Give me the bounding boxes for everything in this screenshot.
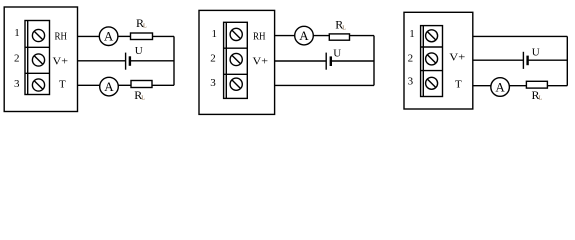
wire V+ row from box edge to battery [473, 59, 524, 61]
svg-text:1: 1 [14, 27, 20, 39]
ammeter A2 [100, 77, 119, 96]
svg-text:3: 3 [210, 77, 216, 89]
resistor R3 body [329, 34, 349, 40]
screw terminal pin 3 [230, 78, 242, 90]
wire ammeter A4 to resistor R4 [509, 85, 526, 87]
svg-text:RH: RH [253, 31, 266, 43]
svg-text:A: A [104, 79, 114, 94]
wire resistor R2 to right bus [152, 84, 174, 86]
resistor R4 body [526, 81, 547, 88]
ammeter A1 [99, 27, 118, 46]
svg-text:U: U [135, 45, 143, 57]
wire V+ row from box edge to battery [275, 60, 327, 62]
terminal block J3 [421, 26, 443, 97]
terminal block inner left line [422, 26, 424, 97]
sensor outline box (diagram 2) [199, 10, 275, 114]
svg-text:RH: RH [55, 31, 68, 43]
sensor outline box (diagram 3) [404, 12, 473, 109]
svg-text:V+: V+ [253, 56, 269, 68]
wire battery to right bus [528, 59, 568, 61]
wire ammeter A1 to resistor R1 [118, 35, 131, 37]
resistor R1 body [131, 33, 153, 40]
svg-text:2: 2 [14, 52, 20, 64]
battery U long plate [522, 52, 524, 69]
wire resistor R1 to right bus [153, 35, 175, 37]
right bus wire (diagram 2) [373, 36, 375, 86]
svg-text:L: L [143, 24, 147, 30]
svg-text:A: A [495, 79, 505, 94]
terminal block J1 [25, 21, 50, 95]
wire battery to right bus [331, 60, 374, 62]
svg-text:L: L [342, 25, 346, 31]
svg-text:3: 3 [408, 75, 414, 87]
svg-text:T: T [455, 79, 462, 91]
svg-text:V+: V+ [53, 56, 69, 68]
wire RH row from box edge to ammeter [275, 35, 295, 37]
right bus wire (diagram 1) [173, 36, 175, 85]
wire ammeter A2 to resistor R2 [118, 84, 131, 86]
screw terminal pin 3 [32, 79, 44, 91]
screw terminal pin 2 [32, 54, 44, 66]
wire top row plain [473, 35, 568, 37]
svg-text:T: T [59, 79, 66, 91]
screw terminal pin 3 [426, 77, 438, 89]
battery U long plate [325, 53, 327, 70]
screw terminal pin 2 [426, 53, 438, 65]
battery U short plate [129, 56, 131, 66]
svg-text:1: 1 [212, 28, 218, 40]
ammeter A4 [491, 78, 510, 97]
resistor R2 body [131, 81, 152, 88]
svg-text:V+: V+ [449, 52, 465, 64]
svg-text:2: 2 [210, 52, 216, 64]
svg-text:U: U [532, 47, 540, 59]
terminal block inner left line [225, 22, 227, 98]
svg-text:L: L [141, 96, 145, 102]
sensor outline box (diagram 1) [4, 7, 77, 112]
terminal cell divider 2-3 [25, 72, 50, 74]
svg-text:A: A [299, 28, 309, 43]
screw terminal pin 1 [32, 29, 44, 41]
screw terminal pin 2 [230, 53, 242, 65]
screw terminal pin 1 [426, 30, 438, 42]
battery U short plate [526, 56, 528, 66]
wire battery to right bus [130, 60, 174, 62]
terminal cell divider 1-2 [421, 46, 443, 48]
terminal cell divider 2-3 [224, 73, 248, 75]
svg-text:U: U [333, 48, 341, 60]
screw terminal pin 1 [230, 28, 242, 40]
wire resistor R4 to right bus [547, 85, 567, 87]
wire ammeter A3 to resistor R3 [313, 35, 329, 37]
svg-text:A: A [104, 29, 114, 44]
svg-text:L: L [539, 96, 543, 102]
wire RH row from box edge to ammeter [78, 35, 100, 37]
wire resistor R3 to right bus [350, 35, 375, 37]
right bus wire (diagram 3) [566, 36, 568, 85]
battery U short plate [330, 56, 332, 66]
terminal block inner left line [27, 21, 29, 95]
terminal cell divider 2-3 [421, 70, 443, 72]
battery U long plate [125, 53, 127, 70]
terminal cell divider 1-2 [25, 46, 50, 48]
svg-text:3: 3 [14, 78, 20, 90]
ammeter A3 [295, 26, 314, 45]
wire T row from box edge to ammeter A4 [473, 85, 491, 87]
terminal cell divider 1-2 [224, 47, 248, 49]
terminal block J2 [224, 22, 248, 98]
svg-text:2: 2 [408, 52, 414, 64]
svg-text:1: 1 [409, 28, 415, 40]
wire T row from box edge to ammeter A2 [78, 84, 101, 86]
wire bottom row plain [275, 84, 374, 86]
wire V+ row from box edge to battery [78, 60, 126, 62]
